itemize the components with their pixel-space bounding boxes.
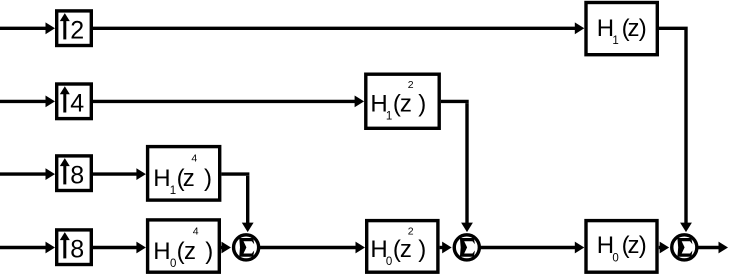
svg-text:): ) xyxy=(205,238,213,265)
svg-text:z: z xyxy=(400,90,412,117)
svg-text:): ) xyxy=(639,15,647,42)
svg-text:8: 8 xyxy=(70,161,84,189)
svg-text:4: 4 xyxy=(70,89,84,117)
svg-text:1: 1 xyxy=(612,35,618,47)
svg-text:1: 1 xyxy=(386,111,392,123)
svg-text:): ) xyxy=(204,165,212,192)
svg-text:0: 0 xyxy=(170,258,176,270)
svg-text:8: 8 xyxy=(70,235,84,263)
svg-text:z: z xyxy=(400,236,412,263)
svg-text:): ) xyxy=(639,232,647,259)
svg-text:1: 1 xyxy=(170,185,176,197)
svg-text:z: z xyxy=(628,15,640,42)
svg-text:0: 0 xyxy=(386,256,392,268)
svg-text:H: H xyxy=(153,238,170,265)
svg-text:0: 0 xyxy=(612,252,618,264)
svg-text:z: z xyxy=(183,165,195,192)
svg-text:2: 2 xyxy=(70,16,84,44)
svg-text:z: z xyxy=(184,238,196,265)
svg-text:H: H xyxy=(153,165,170,192)
svg-text:2: 2 xyxy=(408,79,414,91)
svg-text:): ) xyxy=(418,236,426,263)
svg-text:4: 4 xyxy=(191,152,197,164)
svg-text:z: z xyxy=(628,232,640,259)
svg-text:2: 2 xyxy=(408,226,414,238)
svg-text:): ) xyxy=(418,90,426,117)
svg-text:4: 4 xyxy=(193,225,199,237)
